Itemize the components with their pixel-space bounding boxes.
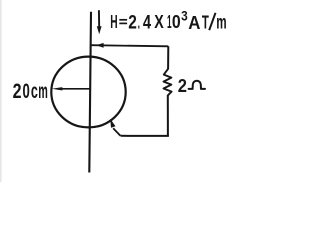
svg-text:.: .: [138, 13, 140, 34]
svg-text:m: m: [216, 11, 226, 33]
wire bottom horizontal: [121, 135, 169, 137]
svg-text:3: 3: [181, 9, 188, 25]
arrow from label to wire: [92, 43, 169, 48]
svg-text:m: m: [38, 79, 48, 103]
wire right side bottom: [167, 95, 169, 135]
svg-text:0: 0: [172, 11, 181, 32]
svg-text:c: c: [31, 79, 38, 103]
wire right side top: [167, 46, 169, 69]
svg-text:2: 2: [128, 13, 137, 34]
svg-text:T: T: [202, 12, 209, 33]
svg-text:2: 2: [178, 76, 187, 96]
label H=2.4 X 10^3 AT/m: [110, 11, 117, 32]
wire diagonal to toroid: [113, 128, 120, 136]
svg-text:H: H: [110, 11, 117, 32]
omega symbol: [189, 81, 205, 89]
label 20cm: [13, 79, 48, 103]
equals sign: [119, 20, 127, 24]
wire vertical conductor (field axis): [89, 12, 91, 173]
svg-text:2: 2: [13, 79, 22, 103]
arrowhead at toroid: [110, 119, 115, 128]
svg-text:4: 4: [143, 12, 152, 33]
H field arrow (down): [97, 10, 102, 34]
svg-text:X: X: [154, 11, 164, 32]
label 2.4 X 10^3 AT m glyphs: [128, 9, 227, 34]
svg-text:A: A: [188, 12, 200, 33]
toroid core circle: [51, 57, 125, 128]
scan edge artifact: [0, 0, 2, 182]
radius arrow line: [52, 87, 91, 90]
svg-text:0: 0: [23, 79, 30, 103]
slash of AT/m: [209, 13, 215, 30]
resistor R1 zigzag: [164, 69, 172, 96]
